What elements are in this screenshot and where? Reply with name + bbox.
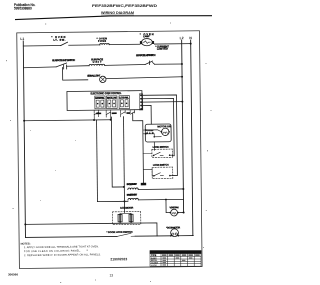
svg-text:WIRING DIAGRAM: WIRING DIAGRAM — [101, 11, 134, 15]
lock switch SW4 — [154, 152, 164, 155]
svg-text:LOCK SWITCH: LOCK SWITCH — [153, 164, 169, 167]
wire motor box to lock box1 — [153, 142, 155, 150]
wire fan to L2 — [178, 211, 184, 213]
motor M1 circle — [162, 128, 169, 135]
lock switch box2 — [152, 167, 173, 179]
relay contact CR2 leads — [106, 114, 111, 120]
svg-text:FUSE: FUSE — [98, 40, 106, 43]
svg-text:SIGNAL LIGHT: SIGNAL LIGHT — [87, 73, 100, 77]
svg-text:LT. SW.: LT. SW. — [53, 38, 65, 42]
svg-text:L1: L1 — [20, 37, 24, 41]
svg-text:BAKE REL: BAKE REL — [95, 97, 105, 100]
motor M1 glyph — [163, 132, 167, 133]
relay K2 winding b — [113, 100, 116, 107]
junction rung2-L2 — [181, 63, 183, 65]
junction signal-L2 — [181, 76, 183, 78]
wire v4 to box2 — [143, 169, 154, 175]
svg-text:FEF352BFWC,FEF352BFWD: FEF352BFWC,FEF352BFWD — [92, 4, 158, 8]
rail N — [191, 40, 193, 235]
wire contact4 jog to v4 — [133, 113, 144, 183]
svg-text:FAN: FAN — [146, 132, 153, 135]
svg-text:219002023: 219002023 — [110, 257, 127, 261]
lock switch box1 terminals — [153, 155, 155, 157]
junction rung3-v1 — [93, 119, 95, 121]
corner rung5-N — [191, 235, 194, 237]
relay K3 winding a dot — [121, 103, 123, 105]
junction bus-bake line — [123, 200, 125, 202]
fuse F1 — [100, 43, 110, 44]
relay K3 winding b dot — [126, 102, 128, 104]
svg-text:13: 13 — [110, 274, 114, 278]
svg-text:SURFACE UNIT SWITCH: SURFACE UNIT SWITCH — [52, 58, 75, 62]
bake element coil — [128, 198, 138, 200]
wire rung1 left — [23, 45, 60, 47]
motor box terminal b — [145, 133, 147, 135]
relay K2 winding b dot — [113, 103, 115, 105]
wire rung1 mid — [69, 44, 100, 46]
svg-text:2. REPLACED WIRE IF IN SILVER: 2. REPLACED WIRE IF IN SILVER APPEAR ON … — [24, 253, 101, 257]
surface unit switch B ticks — [150, 61, 155, 65]
wire rung4 — [25, 223, 157, 238]
wire rung2 mid — [67, 65, 90, 68]
motor box M1 — [145, 124, 171, 142]
door motor terminals — [170, 235, 172, 237]
wire bus v3 down — [124, 117, 125, 212]
fan motor glyph — [172, 213, 176, 214]
chart table header text — [151, 251, 198, 267]
wire rung1 right — [154, 43, 190, 45]
wire lock motor top tie — [120, 212, 131, 213]
rail L1 — [23, 41, 25, 237]
door motor M3 — [171, 229, 179, 237]
wire rung5 to N — [178, 235, 193, 237]
lock switch SW5 — [154, 173, 164, 176]
svg-text:ELEMENT WATTAGE CHART: ELEMENT WATTAGE CHART — [155, 251, 198, 254]
wire connector w1 — [143, 95, 178, 176]
relay K2 winding a — [108, 100, 111, 107]
surface unit switch — [56, 63, 67, 67]
relay contact CR3 — [121, 110, 126, 115]
wire box2 right lead — [170, 175, 177, 177]
junction rung4-L1 — [24, 223, 26, 225]
signal light cross — [101, 77, 105, 81]
connector P1 pins — [139, 94, 143, 110]
lock motor winding a — [118, 214, 122, 222]
wire rung2 left — [24, 66, 57, 69]
relay K2 box — [106, 96, 117, 109]
surface unit switch B — [145, 61, 153, 64]
oven light switch — [61, 42, 68, 45]
wire bake right to drop — [138, 199, 183, 213]
relay contact CR2 — [106, 110, 111, 115]
wire v1 down to bake feed — [96, 120, 99, 202]
door motor glyph — [172, 233, 174, 235]
door lock switch — [117, 233, 135, 236]
wire rung3 from L1 — [24, 119, 110, 122]
relay contact CR4 — [130, 110, 135, 115]
frame border — [17, 31, 202, 269]
svg-text:SURFACE UNIT SWITCH: SURFACE UNIT SWITCH — [136, 53, 156, 57]
svg-text:LOCK SWITCH: LOCK SWITCH — [153, 146, 169, 149]
relay K1 winding a dot — [97, 103, 99, 105]
wire broil to L2 — [138, 188, 183, 191]
relay contact CR1 leads — [94, 114, 99, 120]
wire signal to L2 — [106, 77, 182, 79]
relay K3 winding b — [125, 100, 128, 107]
lock motor box — [112, 212, 140, 225]
surface unit element coil — [89, 64, 105, 65]
svg-text:BROIL ELEMENT: BROIL ELEMENT — [127, 183, 138, 186]
chart table — [150, 251, 201, 267]
relay K1 winding a — [96, 100, 99, 107]
relay K3 box — [119, 96, 130, 109]
rail L2 — [182, 40, 184, 212]
electronic oven control box U1 — [67, 91, 142, 111]
svg-text:LIMITED: LIMITED — [157, 47, 168, 51]
motor box terminal a — [145, 129, 147, 131]
junction w3-L2 — [181, 101, 183, 103]
wire bake left feed — [97, 200, 127, 202]
lock motor winding b — [129, 214, 133, 222]
junction v2-bus — [123, 186, 125, 188]
relay K1 winding b — [101, 100, 104, 107]
wire connector w2 — [143, 98, 174, 156]
relay K3 winding a — [120, 100, 123, 107]
fan motor terminals — [169, 212, 171, 214]
wire rung1 mid2 — [109, 43, 140, 45]
svg-text:UNIT: UNIT — [93, 60, 102, 64]
svg-text:BAKE ELEMENT: BAKE ELEMENT — [127, 193, 138, 196]
relay contact micro labels — [96, 112, 130, 114]
svg-text:N: N — [189, 36, 192, 40]
svg-text:BROIL RE: BROIL RE — [107, 97, 117, 100]
lock switch box1 — [152, 149, 173, 158]
svg-text:NOTES:: NOTES: — [21, 241, 31, 245]
wire connector w3 — [143, 101, 183, 103]
header rule — [15, 16, 212, 20]
svg-text:L2: L2 — [180, 36, 184, 40]
svg-text:LOCK MOTOR: LOCK MOTOR — [120, 207, 133, 210]
svg-text:5995308880: 5995308880 — [14, 7, 32, 11]
surface unit switch contact ticks — [64, 65, 67, 69]
broil element coil — [128, 188, 138, 190]
oven lamp filament — [143, 41, 151, 44]
wire motor terminals stub — [143, 130, 162, 137]
junction rung1-N — [190, 43, 192, 45]
v4 end mark — [141, 183, 146, 186]
signal light — [100, 76, 106, 82]
svg-text:ELECTRONIC OVEN CONTROL: ELECTRONIC OVEN CONTROL — [90, 91, 121, 95]
svg-text:306566: 306566 — [8, 272, 18, 276]
oven lamp — [141, 39, 152, 46]
wire rung5 — [25, 236, 170, 238]
wire box1 right lead — [170, 154, 175, 157]
scan speckles — [6, 23, 212, 284]
wire lock motor bottoms to rung — [120, 222, 131, 224]
junction rung3-contact2 — [110, 119, 112, 121]
wire v2 down to broil feed — [111, 117, 123, 187]
relay contact CR3 leads — [121, 114, 124, 117]
wire rung2 to L2 — [155, 63, 182, 65]
svg-text:LOCK: LOCK — [151, 265, 157, 267]
svg-text:LAMP: LAMP — [143, 35, 150, 38]
wire signal drop — [63, 67, 88, 80]
svg-text:1. APPLY GOOD SIDE ALL TERMINA: 1. APPLY GOOD SIDE ALL TERMINALS ARE TIG… — [24, 245, 99, 249]
relay contact CR1 — [94, 110, 99, 115]
svg-text:MOTOR DR: MOTOR DR — [157, 125, 171, 128]
relay K2 winding a dot — [109, 103, 111, 105]
fan motor M2 — [171, 209, 178, 216]
lock switch box2 terminals — [153, 175, 155, 177]
lock motor terminals — [119, 214, 121, 216]
svg-text:LOCK REL: LOCK REL — [119, 96, 129, 99]
chart table cell marks — [162, 254, 200, 265]
junction broil-L2 — [182, 188, 184, 190]
junction fan-L2 — [183, 211, 185, 213]
relay K1 winding b dot — [102, 103, 104, 105]
wire v4 to box1 — [143, 153, 152, 155]
wire connector w4 — [143, 105, 152, 124]
junction rung3-L1 — [23, 120, 25, 122]
wire rung2 right — [105, 63, 145, 66]
relay K1 box — [95, 96, 105, 109]
